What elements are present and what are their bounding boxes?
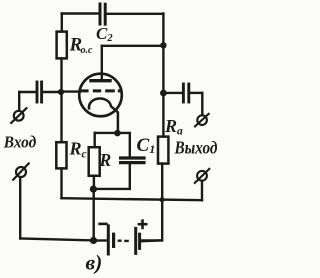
svg-text:Выход: Выход bbox=[174, 138, 218, 158]
svg-text:R: R bbox=[99, 150, 112, 170]
svg-text:в): в) bbox=[86, 251, 103, 275]
svg-text:о.с: о.с bbox=[81, 45, 93, 56]
svg-text:Вход: Вход bbox=[3, 133, 37, 152]
